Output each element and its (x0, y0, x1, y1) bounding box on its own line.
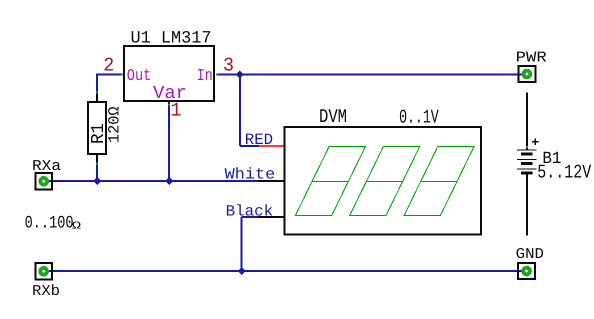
wire Out pin to R1 top (97, 75, 122, 93)
battery plus sign (532, 138, 539, 145)
wire RED net horizontal (240, 145, 259, 147)
DVM digit 1 (295, 147, 365, 216)
terminal GND (518, 263, 535, 279)
battery cell plates (517, 150, 537, 169)
resistor R1 body (88, 102, 106, 154)
DVM white lead stub (258, 180, 285, 182)
svg-text:White: White (225, 166, 275, 184)
svg-text:Black: Black (226, 202, 274, 220)
wire PWR terminal to battery positive (526, 93, 528, 151)
pin end marker R1 bottom (96, 163, 98, 165)
svg-text:5..12V: 5..12V (537, 162, 591, 184)
resistor R1 (88, 93, 123, 164)
svg-text:U1 LM317: U1 LM317 (131, 29, 212, 48)
svg-text:120Ω: 120Ω (105, 107, 123, 144)
svg-text:GND: GND (516, 246, 544, 263)
wire RED net vertical (239, 75, 241, 147)
wire Black net horizontal (242, 216, 259, 218)
regulator IC U1 (103, 29, 234, 121)
wire In pin to junction (217, 74, 240, 76)
resistor R1 bottom pin stub (96, 154, 98, 163)
svg-text:0..100: 0..100 (25, 214, 74, 234)
svg-text:RXb: RXb (32, 283, 60, 300)
terminal PWR (518, 66, 535, 82)
DVM module body (285, 127, 482, 235)
svg-text:RXa: RXa (32, 158, 61, 175)
wire Black net vertical (241, 217, 243, 271)
DVM red lead stub (259, 145, 285, 147)
battery B1 (517, 138, 539, 173)
wire junction to PWR terminal (240, 74, 523, 76)
pin end marker R1 top (96, 92, 98, 94)
Var pin stub (168, 101, 170, 104)
svg-text:2: 2 (103, 55, 114, 77)
wire R1 bottom to White net (96, 163, 98, 181)
IC U1 LM317 body (124, 46, 214, 101)
DVM black lead stub (258, 216, 285, 218)
svg-text:1: 1 (171, 99, 182, 121)
svg-text:DVM: DVM (319, 106, 347, 128)
svg-text:PWR: PWR (516, 50, 547, 67)
pin end marker In (216, 74, 218, 76)
pin end marker Var (168, 104, 170, 106)
DVM module (285, 106, 482, 235)
terminal RXa (35, 173, 52, 190)
wire battery negative to GND terminal (526, 173, 528, 235)
svg-text:Ω: Ω (72, 221, 81, 233)
svg-text:0..1V: 0..1V (399, 106, 439, 128)
svg-text:3: 3 (223, 55, 234, 77)
pin end marker battery top (526, 146, 528, 148)
wire White net horizontal (49, 180, 258, 182)
junction node Black/bottom run (238, 267, 246, 275)
wire Var pin down to White net (168, 105, 170, 182)
terminal RXb (35, 263, 52, 280)
resistor R1 top pin stub (96, 93, 98, 103)
pin end marker Out (121, 74, 123, 76)
junction node under R1 (93, 177, 101, 185)
svg-text:RED: RED (245, 131, 273, 149)
DVM digit 3 (404, 147, 474, 216)
wire bottom ground run RXb to GND (49, 270, 522, 272)
svg-text:In: In (197, 66, 213, 85)
svg-text:Out: Out (127, 66, 152, 85)
junction node under Var (165, 177, 173, 185)
DVM digit 2 (350, 147, 420, 216)
junction node In/PWR/RED (236, 71, 244, 79)
